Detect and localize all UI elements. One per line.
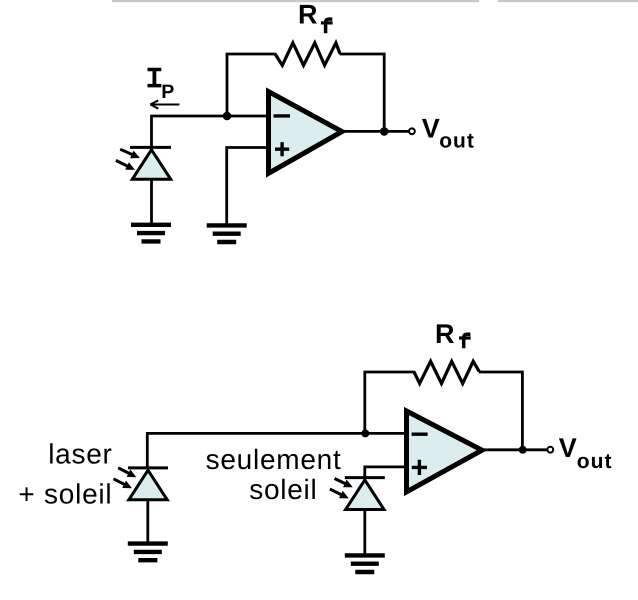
node: inverting input junction (bottom circuit) xyxy=(361,429,369,437)
svg-text:+ soleil: + soleil xyxy=(18,478,112,509)
wire: U2 output xyxy=(484,448,547,451)
svg-text:out: out xyxy=(439,129,475,152)
ground (under D2) xyxy=(128,544,168,561)
photodiode D2 cathode bar xyxy=(128,466,168,469)
svg-text:R: R xyxy=(298,0,318,29)
resistor Rf (bottom) xyxy=(414,361,479,383)
top border line segment A xyxy=(112,0,479,2)
svg-text:R: R xyxy=(435,319,455,349)
photodiode D3 triangle xyxy=(346,480,384,510)
node: inverting input junction (top circuit) xyxy=(223,112,232,121)
wire: non-inverting input of U2 to photodiode D3 xyxy=(365,467,407,477)
label minus at U1 inverting input xyxy=(274,114,291,117)
ground (U1 non-inverting input) xyxy=(207,225,247,242)
light arrow 1 into D3 xyxy=(335,479,352,487)
op-amp U2 xyxy=(407,411,483,492)
ground (under D3) xyxy=(345,555,385,572)
wire: D3 anode to ground xyxy=(363,510,366,554)
wire: D1 anode to ground xyxy=(150,180,153,224)
wire: photodiode D1 up and across to inverting input (top circuit) xyxy=(152,116,269,149)
wire: resistor to feedback right vertical down to output (bottom circuit) xyxy=(479,372,523,450)
photodiode D3 cathode bar xyxy=(345,476,385,479)
svg-text:soleil: soleil xyxy=(249,474,317,505)
svg-text:seulement: seulement xyxy=(206,444,342,475)
terminal: output open circle (top circuit) xyxy=(409,128,415,134)
label minus at U2 inverting input xyxy=(412,433,428,436)
label Rf (bottom resistor) xyxy=(435,319,471,349)
node: output junction (bottom circuit) xyxy=(519,446,527,454)
light arrow 2 into D2 xyxy=(114,479,131,488)
wire: photodiode D2 up and across to inverting input (bottom circuit) xyxy=(147,433,406,467)
label plus at U1 non-inverting input xyxy=(275,142,289,156)
current arrow Ip xyxy=(150,100,179,108)
wire: U1 output xyxy=(344,130,409,133)
photodiode D1 triangle xyxy=(132,150,170,180)
label "laser + soleil" xyxy=(18,439,112,510)
op-amp U1 xyxy=(269,92,343,174)
wire: non-inverting input of U1 to ground xyxy=(227,148,269,224)
light arrow 2 into D1 xyxy=(116,160,134,169)
label plus at U2 non-inverting input xyxy=(412,460,427,475)
svg-text:V: V xyxy=(422,113,440,143)
photodiode D2 triangle xyxy=(129,470,167,500)
light arrow 1 into D2 xyxy=(118,468,135,477)
light arrow 1 into D1 xyxy=(120,149,138,157)
label Rf (top resistor) xyxy=(298,0,333,33)
wire: D2 anode to ground xyxy=(146,500,149,542)
svg-text:V: V xyxy=(559,433,577,463)
label Ip xyxy=(148,68,175,103)
label Vout (top circuit) xyxy=(422,113,475,152)
terminal: output open circle (bottom circuit) xyxy=(547,447,553,453)
label Vout (bottom circuit) xyxy=(559,433,613,473)
resistor Rf (top) xyxy=(275,43,340,65)
node: output junction (top circuit) xyxy=(380,127,389,136)
photodiode D1 cathode bar xyxy=(130,146,171,149)
ground (under D1) xyxy=(131,225,171,242)
wire: resistor to feedback right vertical down to output (top circuit) xyxy=(340,54,385,131)
svg-text:P: P xyxy=(161,81,174,103)
label "seulement soleil" xyxy=(206,444,342,505)
wire: feedback left vertical + top segment to resistor (bottom circuit) xyxy=(365,372,415,434)
light arrow 2 into D3 xyxy=(330,489,348,498)
svg-text:laser: laser xyxy=(48,439,112,470)
svg-text:out: out xyxy=(577,450,613,473)
top border line segment B xyxy=(498,0,638,2)
wire: feedback left vertical + top segment to resistor (top circuit) xyxy=(227,54,276,117)
